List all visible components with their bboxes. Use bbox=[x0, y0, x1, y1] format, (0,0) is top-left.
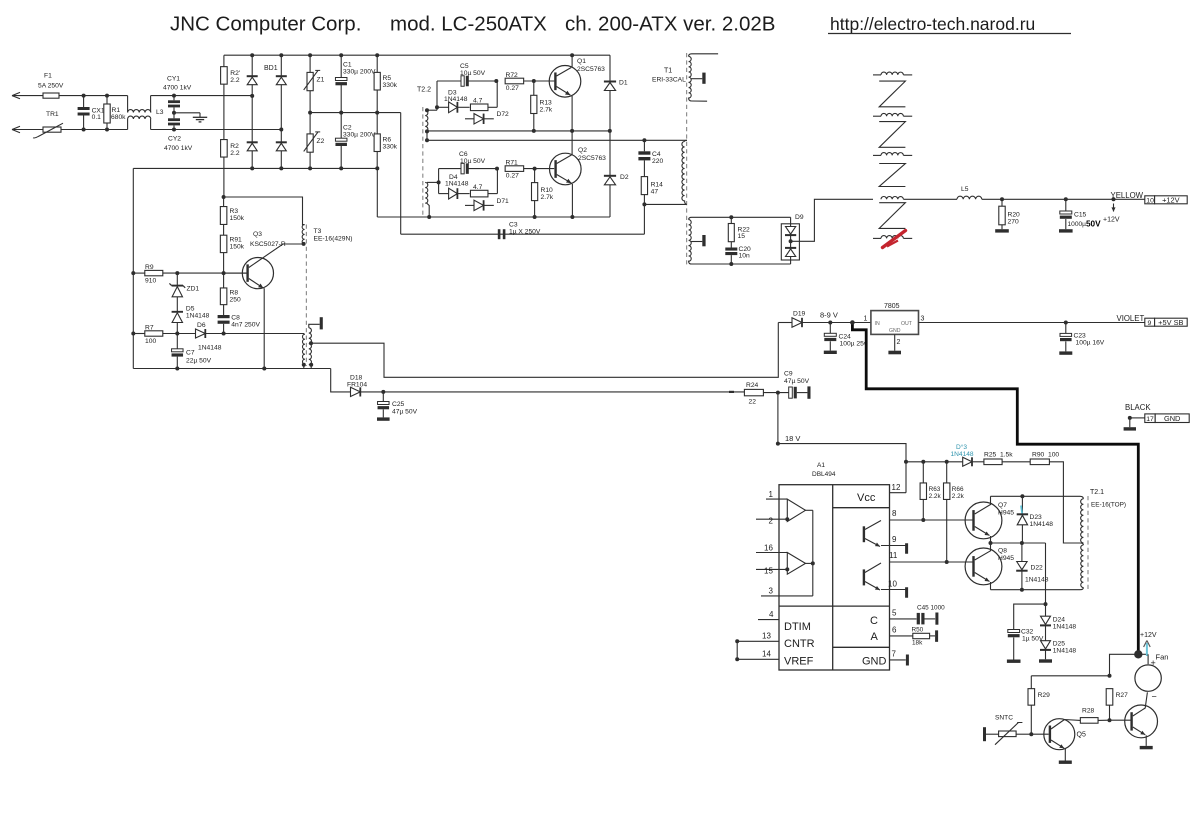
zigzag link 1 bbox=[879, 81, 905, 107]
svg-text:C8: C8 bbox=[231, 315, 240, 322]
resistor R13 bbox=[533, 81, 535, 95]
resistor R28 bbox=[1080, 718, 1098, 724]
node D23 top bbox=[1020, 494, 1024, 498]
svg-text:R7: R7 bbox=[145, 325, 154, 332]
resistor R14 bbox=[641, 177, 647, 195]
diode D1 bbox=[609, 55, 611, 81]
svg-text:22µ 50V: 22µ 50V bbox=[186, 358, 212, 365]
svg-text:C45 1000: C45 1000 bbox=[917, 605, 945, 612]
svg-text:250: 250 bbox=[230, 297, 241, 304]
node R27 bottom bbox=[1108, 718, 1112, 722]
svg-text:R50: R50 bbox=[912, 627, 924, 634]
diode D3 bbox=[449, 102, 458, 113]
node C23 bbox=[1064, 321, 1068, 325]
svg-text:JNC Computer Corp.: JNC Computer Corp. bbox=[170, 13, 361, 36]
svg-text:330k: 330k bbox=[383, 82, 398, 89]
red cross-out mark bbox=[883, 231, 906, 248]
svg-text:330µ 200V: 330µ 200V bbox=[343, 131, 376, 138]
node Q5 base bbox=[1029, 732, 1033, 736]
svg-text:mod. LC-250ATX: mod. LC-250ATX bbox=[390, 13, 547, 36]
wire R90 to T2.1 tap bbox=[1049, 462, 1080, 543]
svg-text:H945: H945 bbox=[998, 510, 1014, 517]
svg-text:22: 22 bbox=[749, 399, 757, 406]
wire +12V arrow and fan feed bbox=[1138, 653, 1148, 655]
node R7 row bbox=[175, 332, 179, 336]
svg-text:D24: D24 bbox=[1053, 617, 1066, 624]
node T3 mid tap bbox=[309, 341, 313, 345]
svg-text:4.7: 4.7 bbox=[473, 184, 483, 191]
wire to GND connector bbox=[1130, 417, 1145, 419]
wire Q1 collector bbox=[557, 68, 572, 77]
svg-text:C32: C32 bbox=[1021, 629, 1034, 636]
resistor R91 bbox=[223, 225, 225, 236]
node C25 bbox=[381, 390, 385, 394]
svg-text:R10: R10 bbox=[541, 187, 554, 194]
node AC2-b bbox=[105, 128, 109, 132]
diode D22 bbox=[1021, 543, 1023, 562]
pin 12 bbox=[890, 492, 907, 494]
svg-text:47µ 50V: 47µ 50V bbox=[392, 409, 418, 416]
wire bottom wire startup bbox=[133, 368, 330, 370]
zigzag link 2 bbox=[879, 122, 905, 148]
capacitor C2 bbox=[340, 113, 342, 139]
svg-text:R25 1.5k: R25 1.5k bbox=[984, 452, 1013, 459]
svg-text:1N4148: 1N4148 bbox=[198, 345, 222, 352]
svg-text:100: 100 bbox=[145, 338, 156, 345]
thick wire standby to output ground bbox=[852, 323, 1138, 655]
resistor R66 bbox=[946, 462, 948, 483]
wire to C32 bbox=[1014, 604, 1046, 629]
resistor R71 bbox=[505, 166, 524, 172]
node thick start bbox=[850, 320, 855, 325]
capacitor C23 bbox=[1065, 323, 1067, 334]
transformer T2.2 core bbox=[422, 107, 424, 217]
node bridge AC2 bbox=[280, 129, 282, 131]
svg-text:10: 10 bbox=[1146, 197, 1154, 204]
svg-text:C4: C4 bbox=[652, 151, 661, 158]
svg-text:FR104: FR104 bbox=[347, 382, 367, 389]
svg-text:10n: 10n bbox=[739, 253, 750, 260]
wire D18 to R24 bbox=[360, 391, 744, 393]
svg-text:D72: D72 bbox=[497, 111, 510, 118]
transformer T3 lower right winding bbox=[309, 328, 312, 365]
diode BD1-2 bbox=[276, 75, 287, 77]
wire 7805 out to +5VSB bbox=[919, 322, 1146, 324]
svg-text:CY2: CY2 bbox=[168, 136, 181, 143]
transistor Q3 bbox=[242, 258, 273, 289]
svg-text:1N4148: 1N4148 bbox=[186, 313, 210, 320]
wire D9 bottom row bbox=[690, 263, 791, 265]
wire T1 primary feed bbox=[427, 139, 687, 141]
node D22 bottom bbox=[1020, 588, 1024, 592]
resistor R25 bbox=[984, 459, 1002, 465]
wire Q8 emitter bbox=[975, 573, 990, 582]
comparator output bus bbox=[806, 509, 813, 511]
transformer T2.2 upper winding bbox=[425, 110, 428, 132]
pins 13-14 tie bbox=[736, 641, 738, 659]
diode D18 bbox=[351, 387, 361, 396]
svg-text:D6: D6 bbox=[197, 322, 206, 329]
pin 14 bbox=[737, 658, 779, 660]
svg-text:2SC5763: 2SC5763 bbox=[578, 155, 606, 162]
svg-text:C23: C23 bbox=[1074, 333, 1087, 340]
wire mid rail bbox=[310, 112, 401, 114]
wire row B bbox=[991, 542, 1046, 544]
output winding stack coil 3 bbox=[873, 154, 881, 156]
node R22 top bbox=[729, 215, 733, 219]
svg-text:14: 14 bbox=[762, 650, 771, 659]
svg-text:BD1: BD1 bbox=[264, 65, 278, 72]
wire R6 column to bottom rail of inverter bbox=[376, 168, 378, 217]
capacitor C7 bbox=[176, 334, 178, 349]
svg-text:8: 8 bbox=[892, 509, 897, 518]
resistor R29 bbox=[1030, 676, 1032, 689]
svg-text:4.7: 4.7 bbox=[473, 98, 483, 105]
T1 top winding tap bar bbox=[691, 78, 703, 80]
transistor Q6 bbox=[1125, 705, 1158, 738]
output winding stack coil 5 bbox=[873, 237, 881, 239]
svg-text:+5V SB: +5V SB bbox=[1158, 318, 1183, 327]
diode BD1-3 bbox=[247, 141, 258, 143]
svg-text:GND: GND bbox=[862, 656, 887, 668]
pin 6 row bbox=[890, 635, 913, 637]
svg-text:330µ 200V: 330µ 200V bbox=[343, 69, 376, 76]
svg-text:1N4148: 1N4148 bbox=[445, 181, 469, 188]
svg-text:D19: D19 bbox=[793, 311, 806, 318]
wire Q6 emitter bbox=[1133, 727, 1146, 735]
IC transistor 1 bbox=[863, 526, 865, 542]
connector pin 17 GND bbox=[1145, 414, 1155, 423]
svg-text:Q7: Q7 bbox=[998, 502, 1007, 509]
diode D72 branch bbox=[465, 118, 474, 120]
capacitor C9 bbox=[789, 387, 793, 398]
wire Q5 emitter bbox=[1051, 740, 1064, 748]
diode D24 bbox=[1045, 604, 1047, 616]
svg-text:910: 910 bbox=[145, 278, 156, 285]
svg-text:IN: IN bbox=[875, 321, 880, 327]
svg-text:220: 220 bbox=[652, 158, 663, 165]
svg-text:5: 5 bbox=[892, 609, 897, 618]
wire 18V to Vcc riser bbox=[778, 444, 906, 493]
svg-text:C6: C6 bbox=[459, 151, 468, 158]
transformer T1 bottom winding bbox=[689, 220, 692, 246]
capacitor C45 bbox=[917, 613, 920, 625]
capacitor C32 bbox=[1008, 630, 1020, 633]
pin 15 bbox=[756, 568, 787, 570]
wire top rail bbox=[224, 54, 610, 56]
svg-text:150k: 150k bbox=[230, 243, 245, 250]
node C24 bbox=[828, 321, 832, 325]
svg-text:YELLOW: YELLOW bbox=[1111, 191, 1144, 200]
wire D13 to R25 bbox=[972, 461, 984, 463]
svg-text:OUT: OUT bbox=[901, 321, 913, 327]
wire Q5 base bbox=[1031, 733, 1048, 735]
svg-text:T2.2: T2.2 bbox=[417, 87, 431, 94]
wire Q6 base bbox=[1110, 719, 1131, 721]
node AC1-a bbox=[82, 94, 86, 98]
capacitor CY1 bbox=[172, 94, 176, 98]
svg-text:2.2k: 2.2k bbox=[952, 493, 965, 500]
capacitor CY2 bbox=[172, 111, 176, 115]
comparator 1 bbox=[787, 499, 805, 521]
node base row bbox=[175, 271, 179, 275]
wire mid rail inverter bbox=[427, 130, 610, 132]
wire mid rail corner to C3 row bbox=[400, 113, 402, 235]
svg-text:R6: R6 bbox=[383, 137, 392, 144]
svg-text:D5: D5 bbox=[186, 306, 195, 313]
wire R24 to C9 bbox=[763, 392, 788, 394]
svg-text:H945: H945 bbox=[998, 555, 1014, 562]
svg-text:T2.1: T2.1 bbox=[1090, 489, 1104, 496]
varistor Z2 bbox=[309, 113, 311, 134]
capacitor C4 bbox=[643, 140, 645, 151]
diode block D9 bbox=[781, 224, 799, 260]
IC A1 box bbox=[779, 485, 890, 670]
transistor Q1 bbox=[549, 66, 581, 98]
wire 18V vertical bbox=[777, 393, 779, 444]
svg-text:C15: C15 bbox=[1074, 212, 1087, 219]
wire D19 to 7805 bbox=[802, 322, 871, 324]
pin 9 terminator bbox=[905, 543, 908, 554]
svg-text:2.2k: 2.2k bbox=[929, 493, 942, 500]
transformer T3 core bbox=[305, 225, 307, 367]
wire Q3 collector bbox=[249, 244, 304, 268]
diode D13 (cyan) bbox=[963, 457, 972, 466]
comparator 2 bbox=[787, 553, 805, 575]
node AC2-a bbox=[82, 128, 86, 132]
svg-text:GND: GND bbox=[889, 328, 901, 334]
resistor R3 bbox=[223, 197, 225, 207]
node R66 bottom bbox=[945, 560, 949, 564]
wire Q5 collector to R28 bbox=[1065, 719, 1081, 722]
svg-text:T1: T1 bbox=[664, 68, 672, 75]
wire R2 column bbox=[223, 55, 225, 197]
wire Q2 collector bbox=[557, 155, 572, 164]
svg-text:T3: T3 bbox=[314, 228, 322, 235]
svg-text:47µ 50V: 47µ 50V bbox=[784, 378, 810, 385]
svg-text:C3: C3 bbox=[509, 222, 518, 229]
svg-text:10: 10 bbox=[888, 580, 897, 589]
resistor R20 bbox=[1001, 199, 1003, 206]
svg-text:47: 47 bbox=[651, 189, 659, 196]
wire 12V rail bbox=[982, 198, 1145, 200]
svg-text:GND: GND bbox=[1164, 414, 1180, 423]
svg-text:9: 9 bbox=[892, 535, 897, 544]
pin 1 bbox=[766, 498, 787, 500]
svg-text:D1: D1 bbox=[619, 80, 628, 87]
node top rail dots bbox=[250, 53, 254, 57]
resistor R24 bbox=[744, 389, 763, 395]
svg-text:0.27: 0.27 bbox=[506, 173, 519, 180]
svg-text:SNTC: SNTC bbox=[995, 715, 1013, 722]
connector pin 10 +12V bbox=[1145, 196, 1155, 204]
svg-text:2: 2 bbox=[897, 339, 901, 346]
svg-text:http://electro-tech.narod.ru: http://electro-tech.narod.ru bbox=[830, 14, 1035, 34]
svg-text:18 V: 18 V bbox=[785, 434, 800, 443]
svg-text:1N4148: 1N4148 bbox=[444, 96, 468, 103]
IC transistor 2 bbox=[863, 569, 865, 585]
capacitor C5 bbox=[437, 80, 463, 82]
wire Q8 collector bbox=[975, 551, 991, 560]
svg-text:R8: R8 bbox=[230, 290, 239, 297]
ground at GND connector bbox=[1129, 418, 1131, 427]
resistor R27 bbox=[1106, 689, 1113, 706]
transformer T1 core bbox=[686, 53, 688, 266]
diode D5 bbox=[172, 311, 183, 313]
zener ZD1 bbox=[176, 273, 178, 285]
wire 462 row bbox=[906, 461, 963, 463]
svg-text:R9: R9 bbox=[145, 264, 154, 271]
svg-text:2.2: 2.2 bbox=[230, 150, 240, 157]
fan motor bbox=[1147, 654, 1149, 664]
choke L3 bbox=[127, 96, 129, 113]
transformer T3 top winding bbox=[302, 225, 304, 245]
capacitor C6 bbox=[439, 168, 464, 170]
wire bridge col2 bbox=[280, 55, 282, 168]
svg-text:0.27: 0.27 bbox=[506, 85, 519, 92]
capacitor C3 bbox=[498, 229, 501, 239]
diode D23 bbox=[1021, 496, 1023, 513]
svg-text:R28: R28 bbox=[1082, 708, 1095, 715]
wire bottom rail inverter bbox=[377, 216, 610, 218]
node R13 top bbox=[532, 79, 536, 83]
svg-text:4n7 250V: 4n7 250V bbox=[231, 322, 260, 329]
resistor R7 bbox=[133, 333, 145, 335]
wire R27 row to R29 bbox=[1031, 675, 1109, 677]
wire C6 left riser bbox=[438, 169, 440, 194]
svg-text:R29: R29 bbox=[1038, 692, 1051, 699]
pin 9 row bbox=[881, 545, 906, 547]
node thick wire end bbox=[1134, 650, 1142, 658]
node GND bbox=[1128, 416, 1132, 420]
output winding stack coil 1 bbox=[873, 74, 881, 76]
svg-text:R14: R14 bbox=[651, 182, 664, 189]
output winding stack coil 4 (+12V) bbox=[881, 197, 903, 200]
diode D71 branch bbox=[465, 204, 474, 206]
node C6-R71 bbox=[495, 167, 499, 171]
svg-text:R27: R27 bbox=[1116, 692, 1129, 699]
svg-text:L3: L3 bbox=[156, 109, 164, 116]
svg-text:D71: D71 bbox=[497, 198, 510, 205]
AC line 2 wire bbox=[12, 129, 43, 131]
svg-text:4700 1kV: 4700 1kV bbox=[164, 145, 193, 152]
svg-text:7: 7 bbox=[892, 650, 897, 659]
node 18V bbox=[776, 442, 780, 446]
svg-text:EE-16(429N): EE-16(429N) bbox=[314, 236, 353, 243]
svg-text:+12V: +12V bbox=[1140, 632, 1157, 639]
wire left vertical bbox=[132, 168, 134, 368]
svg-text:D23: D23 bbox=[1030, 514, 1043, 521]
svg-text:C24: C24 bbox=[839, 334, 852, 341]
resistor R5 bbox=[376, 55, 378, 72]
wire L3 to CY1 top bbox=[151, 95, 253, 97]
wire Q7 collector bbox=[975, 505, 991, 515]
svg-text:ch. 200-ATX ver. 2.02B: ch. 200-ATX ver. 2.02B bbox=[565, 13, 775, 36]
svg-text:150k: 150k bbox=[230, 215, 245, 222]
node R10 top bbox=[533, 167, 537, 171]
wire Q5 collector diag bbox=[1051, 720, 1065, 730]
svg-text:12: 12 bbox=[892, 483, 901, 492]
svg-text:50V: 50V bbox=[1086, 220, 1101, 229]
svg-text:+: + bbox=[1151, 658, 1156, 668]
diode D4 bbox=[439, 193, 449, 195]
diode D25 bbox=[1045, 625, 1047, 640]
resistor R1 bbox=[106, 96, 108, 104]
svg-text:TR1: TR1 bbox=[46, 111, 59, 118]
wire Q7 emitter bbox=[975, 527, 990, 536]
wire R14 to T1 bbox=[644, 203, 687, 205]
transformer T2.1 upper winding bbox=[1080, 496, 1083, 499]
svg-text:CNTR: CNTR bbox=[784, 638, 815, 650]
pin 4 bbox=[758, 619, 779, 621]
thermistor SNTC bbox=[983, 727, 986, 741]
svg-text:R5: R5 bbox=[383, 75, 392, 82]
R50 terminator bbox=[935, 630, 938, 642]
node C20 bottom bbox=[729, 262, 733, 266]
svg-text:3: 3 bbox=[921, 316, 925, 323]
pin 3 bbox=[761, 595, 813, 597]
C45 terminator bbox=[935, 613, 938, 625]
svg-text:BLACK: BLACK bbox=[1125, 403, 1151, 412]
wire row C (emitters to T2.1) bbox=[991, 589, 1081, 591]
svg-text:Vcc: Vcc bbox=[857, 492, 876, 504]
diode D2 bbox=[609, 131, 611, 175]
svg-text:270: 270 bbox=[1008, 219, 1019, 226]
pin 7 terminator bbox=[906, 655, 909, 666]
svg-text:10µ 50V: 10µ 50V bbox=[460, 158, 486, 165]
svg-text:D°3: D°3 bbox=[956, 443, 967, 451]
wire Q2 emitter bbox=[557, 175, 572, 184]
svg-text:VREF: VREF bbox=[784, 656, 814, 668]
wire node to T3 top bbox=[224, 197, 305, 225]
inductor L5 bbox=[957, 196, 982, 199]
resistor R10 bbox=[534, 169, 536, 183]
svg-text:ZD1: ZD1 bbox=[187, 286, 200, 293]
svg-text:Z2: Z2 bbox=[317, 138, 325, 145]
svg-text:R90 100: R90 100 bbox=[1032, 452, 1059, 459]
resistor 4.7 lower bbox=[457, 193, 469, 195]
svg-text:15: 15 bbox=[764, 567, 773, 576]
resistor R2' bbox=[221, 67, 228, 85]
wire D9 out riser bbox=[791, 199, 873, 241]
diode BD1-4 bbox=[276, 141, 287, 143]
wire C3 row bbox=[401, 233, 645, 235]
pin 16 bbox=[756, 552, 787, 554]
svg-text:10µ 50V: 10µ 50V bbox=[460, 70, 486, 77]
T3 winding tap bar bbox=[309, 324, 320, 328]
capacitor C24 bbox=[829, 323, 831, 334]
ground near CY1/CY2 bbox=[174, 112, 200, 114]
resistor R50 bbox=[913, 633, 930, 638]
node Vcc riser bbox=[904, 460, 908, 464]
transformer T2.2 lower winding bbox=[425, 182, 428, 203]
output winding stack coil 2 bbox=[873, 115, 881, 117]
diode BD1-1 bbox=[247, 75, 258, 77]
svg-text:680k: 680k bbox=[111, 114, 126, 121]
resistor R2 bbox=[221, 140, 228, 158]
node AC1-b bbox=[105, 94, 109, 98]
svg-text:R24: R24 bbox=[746, 382, 759, 389]
svg-text:100µ 16V: 100µ 16V bbox=[1076, 340, 1105, 347]
transformer T1 middle winding (primary) bbox=[682, 142, 685, 174]
svg-text:+12V: +12V bbox=[1162, 196, 1180, 205]
resistor 4.7 upper bbox=[457, 106, 469, 108]
svg-text:D25: D25 bbox=[1053, 641, 1066, 648]
svg-text:1N4148: 1N4148 bbox=[951, 451, 974, 458]
svg-text:Q5: Q5 bbox=[1077, 732, 1086, 739]
transformer T2.1 core bbox=[1087, 496, 1089, 592]
pin 10 terminator bbox=[905, 587, 908, 598]
